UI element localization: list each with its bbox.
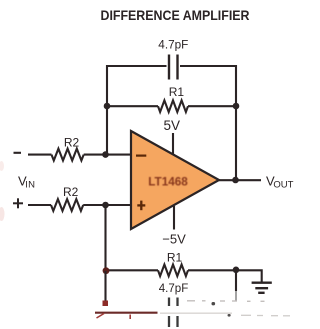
svg-text:R1: R1 (167, 251, 183, 265)
dark speck near cap (212, 302, 216, 305)
wire output lead (219, 179, 261, 181)
svg-text:R1: R1 (169, 85, 185, 99)
resistor R2 (upper, inverting input) (52, 149, 84, 161)
wire right vertical (cap/R1 right to output node) (235, 65, 237, 180)
wire left vertical (non-inverting node down to bottom R1) (104, 205, 106, 271)
label VOUT (266, 173, 294, 190)
wire right vertical continuation (to bottom cap, fading) (235, 271, 237, 292)
capacitor C1 4.7pF (top feedback cap) (169, 55, 178, 80)
wire R1 top left lead (107, 105, 158, 107)
junction node (non-inverting input) (102, 202, 109, 209)
minus polarity sign (input) (14, 152, 22, 154)
wire R1 top right lead (188, 105, 236, 107)
faint gray line continuation (160, 312, 232, 314)
wire top cap left segment (107, 65, 167, 67)
wire non-inverting input lead (right) (83, 204, 131, 206)
junction node (bottom right) (233, 267, 240, 274)
red annotation artifact: blob at bottom of left wire (103, 301, 109, 307)
capacitor C2 4.7pF bottom (plates, cropped by image edge) (169, 298, 178, 328)
op-amp non-inverting pin plus sign (137, 201, 145, 211)
junction node (left, R1/cap tap) (104, 103, 111, 110)
op-amp inverting pin minus sign (136, 155, 146, 157)
wire -5V supply lead (173, 206, 175, 230)
red annotation artifact: small tick (129, 315, 131, 320)
dark speck lower row (228, 314, 231, 317)
junction node (bottom left, red-tinted) (103, 267, 110, 274)
junction node (right, R1/cap tap) (233, 103, 240, 110)
faint pink smudge (left edge upper) (0, 161, 4, 171)
wire bottom R1 right lead (188, 269, 236, 271)
wire non-inverting input lead (left) (28, 204, 51, 206)
junction node (inverting input) (102, 151, 109, 158)
wire left vertical continuation (to bottom cap, cropped) (104, 271, 106, 301)
resistor R1 (top feedback) (158, 100, 188, 112)
svg-text:4.7pF: 4.7pF (158, 38, 188, 52)
label VIN (18, 173, 35, 190)
resistor R2 (lower, non-inverting input) (51, 199, 83, 211)
svg-text:−5V: −5V (162, 232, 186, 247)
wire inverting input lead (right) (84, 154, 131, 156)
wire inverting input lead (left) (28, 154, 52, 156)
faint pink smudge (left edge lower) (0, 207, 5, 221)
red annotation artifact: left hook diagonal (97, 314, 105, 319)
wire ground branch (236, 270, 262, 281)
wire right vertical faint tail (235, 291, 237, 301)
svg-text:DIFFERENCE AMPLIFIER: DIFFERENCE AMPLIFIER (101, 7, 250, 23)
op-amp U1 LT1468 (triangle body) (131, 131, 219, 229)
svg-text:OUT: OUT (273, 179, 293, 190)
svg-text:5V: 5V (164, 118, 181, 133)
svg-text:IN: IN (25, 180, 35, 191)
wire bottom R1 left lead (106, 269, 159, 271)
plus polarity sign (input) (13, 198, 23, 208)
svg-text:4.7pF: 4.7pF (159, 281, 189, 295)
red annotation artifact: horizontal maroon line (95, 312, 158, 314)
wire 5V supply lead (172, 133, 174, 155)
wire left vertical (cap/R1 left to inverting input) (106, 65, 108, 155)
wire top cap right segment (180, 65, 236, 67)
faint gray dash row (upper) (187, 300, 265, 303)
ground symbol (252, 283, 272, 293)
junction node (output) (232, 177, 239, 184)
svg-text:LT1468: LT1468 (148, 174, 188, 188)
faint gray dash row (lower) (241, 314, 290, 317)
resistor R1 (bottom, to ground) (158, 264, 188, 276)
